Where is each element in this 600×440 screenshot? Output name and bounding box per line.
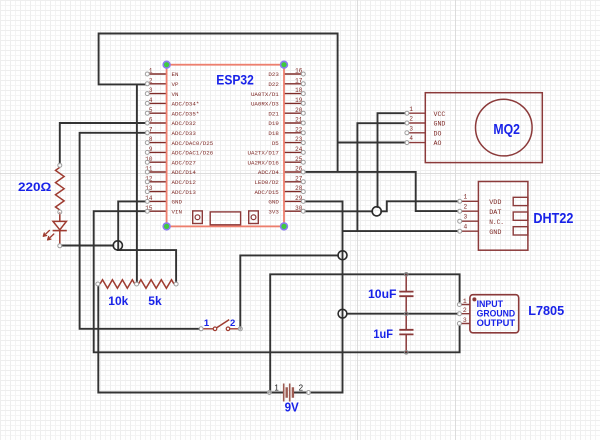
svg-text:VP: VP [172, 81, 179, 88]
svg-text:10k: 10k [108, 294, 128, 308]
svg-text:ADC/D27: ADC/D27 [172, 159, 197, 166]
svg-text:VCC: VCC [434, 111, 446, 118]
svg-text:5k: 5k [148, 294, 162, 308]
svg-text:3: 3 [463, 214, 467, 221]
svg-text:1: 1 [204, 318, 210, 329]
svg-text:ADC/D13: ADC/D13 [172, 189, 197, 196]
svg-text:VDD: VDD [489, 199, 501, 207]
svg-text:D18: D18 [268, 130, 279, 137]
svg-text:UA2TX/D17: UA2TX/D17 [247, 150, 279, 157]
svg-text:D22: D22 [268, 81, 279, 88]
svg-text:2: 2 [230, 318, 235, 329]
svg-text:GND: GND [434, 121, 446, 128]
svg-text:VIN: VIN [172, 208, 183, 215]
svg-text:GND: GND [489, 229, 501, 237]
svg-text:1uF: 1uF [373, 329, 393, 341]
svg-text:GND: GND [172, 199, 183, 206]
svg-text:2: 2 [299, 384, 304, 393]
svg-text:4: 4 [463, 224, 467, 231]
svg-text:ADC/D34*: ADC/D34* [172, 101, 200, 108]
svg-text:AO: AO [434, 140, 442, 147]
svg-text:EN: EN [172, 71, 179, 78]
svg-text:1: 1 [463, 194, 467, 201]
svg-text:3: 3 [409, 125, 413, 132]
svg-text:D5: D5 [272, 140, 279, 147]
svg-text:2: 2 [463, 204, 467, 211]
svg-text:N.C.: N.C. [489, 219, 504, 227]
svg-text:9V: 9V [285, 401, 300, 415]
svg-text:ADC/D33: ADC/D33 [172, 130, 197, 137]
svg-text:ADC/DAC1/D26: ADC/DAC1/D26 [172, 150, 214, 157]
svg-text:ESP32: ESP32 [216, 72, 254, 87]
svg-text:220Ω: 220Ω [18, 180, 52, 194]
svg-text:D21: D21 [268, 110, 279, 117]
svg-text:LED0/D2: LED0/D2 [254, 179, 279, 186]
svg-text:VN: VN [172, 91, 179, 98]
svg-text:ADC/D12: ADC/D12 [172, 179, 197, 186]
svg-text:MQ2: MQ2 [493, 121, 520, 138]
svg-text:ADC/D35*: ADC/D35* [172, 110, 200, 117]
svg-text:UA2RX/D16: UA2RX/D16 [247, 159, 279, 166]
svg-text:UA0TX/D1: UA0TX/D1 [251, 91, 279, 98]
svg-text:UA0RX/D3: UA0RX/D3 [251, 101, 279, 108]
svg-text:1: 1 [463, 298, 467, 305]
svg-text:ADC/D15: ADC/D15 [254, 189, 279, 196]
svg-text:1: 1 [274, 384, 279, 393]
svg-text:3: 3 [463, 317, 467, 324]
svg-text:DAT: DAT [489, 209, 501, 217]
svg-text:OUTPUT: OUTPUT [477, 318, 516, 328]
svg-text:2: 2 [409, 116, 413, 123]
svg-text:L7805: L7805 [528, 303, 564, 318]
svg-text:GND: GND [268, 199, 279, 206]
svg-text:DO: DO [434, 130, 442, 137]
svg-text:ADC/D32: ADC/D32 [172, 120, 197, 127]
svg-text:1: 1 [409, 106, 413, 113]
svg-text:3V3: 3V3 [268, 208, 279, 215]
svg-text:GROUND: GROUND [477, 308, 515, 318]
svg-text:2: 2 [463, 307, 467, 314]
svg-text:4: 4 [409, 135, 413, 142]
svg-text:ADC/DAC0/D25: ADC/DAC0/D25 [172, 140, 214, 147]
svg-text:ADC/D14: ADC/D14 [172, 169, 197, 176]
svg-text:10uF: 10uF [368, 289, 397, 301]
svg-text:ADC/D4: ADC/D4 [258, 169, 279, 176]
svg-text:D23: D23 [268, 71, 279, 78]
svg-text:D19: D19 [268, 120, 279, 127]
svg-text:DHT22: DHT22 [533, 210, 573, 227]
